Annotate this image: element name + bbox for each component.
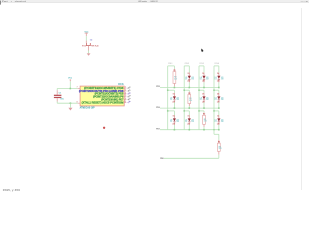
power flag symbol PWR_FLAG pair <box>85 41 87 43</box>
svg-text:D10: D10 <box>188 116 190 118</box>
svg-text:LE: LE <box>185 77 187 79</box>
svg-text:PD6: PD6 <box>156 107 160 109</box>
wire <box>188 90 190 92</box>
svg-text:D2: D2 <box>188 73 190 75</box>
svg-text:LED: LED <box>202 81 205 83</box>
svg-text:PB0: PB0 <box>160 158 164 160</box>
wire <box>173 102 175 108</box>
svg-text:220: 220 <box>174 78 177 80</box>
svg-text:D7: D7 <box>202 94 204 96</box>
svg-text:5M: 5M <box>206 79 210 81</box>
IC right pin 5 <box>124 96 126 98</box>
wire <box>56 102 58 104</box>
LED D12 <box>218 115 220 118</box>
wire bar top col 4 <box>214 65 219 67</box>
svg-text:C1: C1 <box>59 92 62 94</box>
svg-text:220: 220 <box>219 148 222 150</box>
junction <box>174 87 176 89</box>
svg-text:6: 6 <box>125 98 126 100</box>
svg-text:D9: D9 <box>173 116 175 118</box>
wire <box>203 82 205 87</box>
wire <box>203 90 205 93</box>
LED D8 <box>218 93 220 97</box>
wire bar mid col 2 <box>184 89 189 91</box>
junction <box>213 110 215 112</box>
svg-text:LED: LED <box>176 119 179 121</box>
svg-text:LED: LED <box>221 97 224 99</box>
svg-text:LED: LED <box>187 81 190 83</box>
junction <box>189 129 191 131</box>
wire <box>218 134 220 140</box>
wire <box>218 90 220 93</box>
junction <box>189 107 191 109</box>
junction <box>218 87 220 89</box>
svg-text:schematic.sch: schematic.sch <box>15 0 26 3</box>
svg-text:5M: 5M <box>191 121 195 123</box>
svg-text:LED: LED <box>191 77 194 79</box>
IC right pin 3 <box>124 90 126 92</box>
junction <box>189 87 191 89</box>
wire <box>57 102 77 104</box>
wire column 3 bus vertical <box>198 66 200 130</box>
svg-text:LED matrix: LED matrix <box>138 0 147 3</box>
svg-text:100n: 100n <box>60 98 64 100</box>
wire <box>203 102 205 108</box>
svg-text:12: 12 <box>90 39 94 41</box>
svg-text:COL3: COL3 <box>199 63 204 65</box>
svg-text:LE: LE <box>170 119 172 121</box>
wire <box>57 88 77 90</box>
wire bar low col 3 <box>199 110 204 112</box>
right panel divider line <box>300 8 303 190</box>
junction <box>174 107 176 109</box>
svg-text:7: 7 <box>77 87 78 89</box>
wire column 2 bus vertical <box>183 66 185 130</box>
wire <box>173 125 175 130</box>
LED D2 <box>188 73 190 76</box>
svg-text:D3: D3 <box>202 73 204 75</box>
wire <box>218 102 220 108</box>
wire <box>173 66 175 69</box>
IC left pin 8 (GND) <box>78 102 80 104</box>
wire column 4 bus vertical <box>213 66 215 130</box>
junction <box>213 89 215 91</box>
wire bar low col 4 <box>214 110 219 112</box>
wire bar mid col 1 <box>168 89 175 91</box>
wire <box>188 125 190 130</box>
svg-text:PD5: PD5 <box>156 86 160 88</box>
wire <box>88 51 90 54</box>
svg-text:IC1: IC1 <box>118 82 124 86</box>
junction <box>167 110 169 112</box>
svg-text:R1: R1 <box>189 98 192 100</box>
svg-text:LE: LE <box>215 97 217 99</box>
svg-text:5M: 5M <box>221 121 225 123</box>
svg-text:Part: Part <box>2 0 8 3</box>
wire <box>218 111 220 116</box>
junction <box>203 129 205 131</box>
wire <box>218 66 220 73</box>
svg-text:LED: LED <box>221 77 224 79</box>
svg-text:- EAGLE 5.1: - EAGLE 5.1 <box>150 0 158 3</box>
svg-text:ATMEGA8-16P: ATMEGA8-16P <box>80 106 95 109</box>
svg-text:LED: LED <box>191 119 194 121</box>
wire <box>203 66 205 73</box>
mouse cursor <box>201 49 203 53</box>
wire <box>69 103 71 108</box>
svg-text:5M: 5M <box>206 99 210 101</box>
wire <box>69 81 71 88</box>
wire bar low col 2 <box>184 110 189 112</box>
svg-text:5M: 5M <box>176 121 180 123</box>
LED D3 <box>203 73 205 76</box>
junction <box>213 129 214 130</box>
LED D4 <box>218 73 220 76</box>
wire <box>188 66 190 73</box>
wire <box>218 125 220 130</box>
IC right pin 6 <box>124 99 126 101</box>
svg-text:COL1: COL1 <box>168 63 173 65</box>
LED D9 <box>173 115 175 118</box>
wire bar mid col 4 <box>214 89 219 91</box>
svg-text:R1: R1 <box>174 77 177 79</box>
svg-text:LED: LED <box>176 97 179 99</box>
svg-text:VCC: VCC <box>68 78 72 80</box>
svg-text:LE: LE <box>170 97 172 99</box>
wire row line 1 <box>160 87 219 89</box>
IC right pin 11 <box>124 101 126 103</box>
svg-text:4: 4 <box>125 91 126 94</box>
wire bar mid col 3 <box>199 89 204 91</box>
junction <box>70 88 72 90</box>
wire <box>188 106 190 108</box>
wire bar top col 1 <box>168 65 175 67</box>
wire bar top col 3 <box>199 65 204 67</box>
svg-text:(XTAL1 RESET) ADC5 PCINT/GM: (XTAL1 RESET) ADC5 PCINT/GM <box>82 101 124 104</box>
resistor R2 <box>188 92 190 95</box>
junction <box>203 107 205 109</box>
junction <box>70 102 72 104</box>
svg-text:R1: R1 <box>204 119 207 121</box>
junction <box>198 89 200 91</box>
LED D10 <box>188 115 190 118</box>
wire <box>173 86 175 87</box>
svg-text:5M: 5M <box>176 99 180 101</box>
resistor R4 (bottom) <box>218 140 220 143</box>
IC right pin 4 <box>124 93 126 95</box>
svg-text:5M: 5M <box>191 79 195 81</box>
wire <box>218 82 220 87</box>
wire <box>56 89 58 91</box>
wire <box>188 111 190 116</box>
wire <box>188 82 190 87</box>
svg-text:LE: LE <box>215 77 217 79</box>
LED D5 <box>173 93 175 97</box>
resistor R1 <box>173 69 175 72</box>
svg-text:220: 220 <box>204 121 207 123</box>
wire <box>85 36 87 41</box>
svg-text:LED: LED <box>206 97 209 99</box>
svg-text:2: 2 <box>125 87 126 89</box>
junction <box>218 107 220 109</box>
wire bottom jog from column 4 <box>213 130 215 135</box>
junction <box>183 89 185 91</box>
junction <box>218 129 220 131</box>
svg-text:D12: D12 <box>217 116 219 118</box>
wire row line 2 <box>160 107 219 109</box>
svg-text:D5: D5 <box>173 94 175 96</box>
wire <box>203 111 205 113</box>
svg-text:5: 5 <box>125 95 126 97</box>
svg-text:LE: LE <box>200 77 202 79</box>
svg-text:1595, y 450: 1595, y 450 <box>3 189 22 192</box>
wire bar top col 2 <box>184 65 189 67</box>
junction <box>167 89 169 91</box>
svg-text:LED: LED <box>206 77 209 79</box>
svg-text:COL2: COL2 <box>185 63 190 65</box>
wire <box>218 155 220 159</box>
resistor R3 <box>203 113 205 116</box>
power symbol GND (IC ground) <box>68 108 72 111</box>
svg-text:LE: LE <box>200 97 202 99</box>
svg-text:PD7: PD7 <box>156 128 160 130</box>
svg-text:PWR_FLAG: PWR_FLAG <box>82 45 86 48</box>
svg-text:+: + <box>11 1 12 3</box>
junction <box>174 129 176 131</box>
capacitor C1 <box>56 90 58 94</box>
pin <box>88 46 90 51</box>
svg-text:LED: LED <box>217 81 220 83</box>
wire bar low col 1 <box>168 110 175 112</box>
svg-text:8: 8 <box>77 101 78 103</box>
IC right pin 2 <box>124 87 126 89</box>
wire <box>173 111 175 116</box>
svg-text:5M: 5M <box>221 99 225 101</box>
svg-text:220: 220 <box>189 100 192 102</box>
wire <box>203 127 205 130</box>
svg-text:D4: D4 <box>217 72 219 75</box>
IC IC1 ATMEGA8 body <box>80 86 124 106</box>
svg-text:3: 3 <box>125 90 126 92</box>
wire <box>173 90 175 93</box>
wire row line 3 <box>160 129 219 131</box>
svg-text:D8: D8 <box>217 94 219 96</box>
junction <box>203 87 205 89</box>
svg-text:5M: 5M <box>221 79 225 81</box>
svg-text:11: 11 <box>125 101 127 103</box>
LED D7 <box>203 93 205 97</box>
svg-text:R1: R1 <box>219 146 222 148</box>
origin marker red dot <box>103 127 105 129</box>
svg-text:LED: LED <box>221 119 224 121</box>
svg-text:LE: LE <box>185 119 187 121</box>
power symbol GND arrow (flag cluster) <box>87 53 91 55</box>
junction <box>183 110 185 112</box>
wire column 1 bus vertical <box>167 66 169 130</box>
junction <box>198 110 200 112</box>
svg-text:PWR_FLAG: PWR_FLAG <box>91 45 98 48</box>
IC left pin 7 (VCC) <box>78 88 80 90</box>
svg-text:COL4: COL4 <box>214 62 219 65</box>
wire bottom row line <box>164 157 219 159</box>
svg-text:LE: LE <box>215 119 217 121</box>
window title / menu bar <box>0 0 309 3</box>
